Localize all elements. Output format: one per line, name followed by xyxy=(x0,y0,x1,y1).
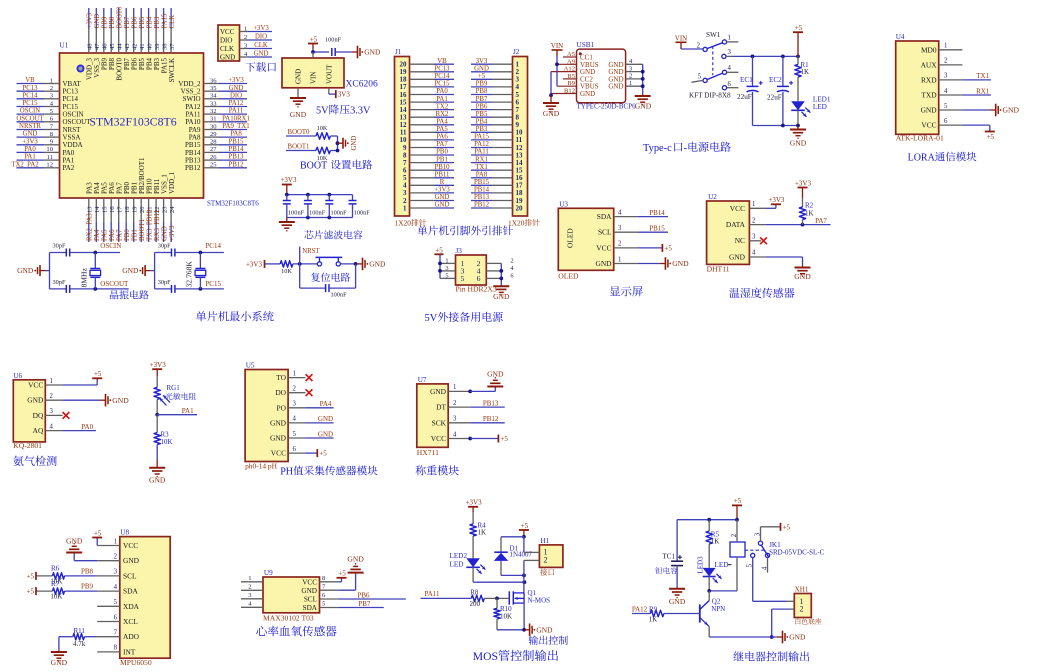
J2 pin 14 wire, net RX1 xyxy=(471,156,523,167)
resistor R7 10K pullup SDA net PB9 xyxy=(27,580,120,601)
regulator U10 XC6206 body xyxy=(282,58,378,90)
capacitor 30pF bottom 2 xyxy=(155,279,201,293)
capacitor TC1 tantalum 钽电容 xyxy=(655,520,683,589)
svg-text:+3V3: +3V3 xyxy=(253,25,269,32)
svg-text:27: 27 xyxy=(210,146,217,153)
U1 pin 11 PA1 wire, net PA1 xyxy=(17,154,75,165)
svg-text:1: 1 xyxy=(752,201,755,208)
svg-text:16: 16 xyxy=(109,206,116,213)
svg-text:2: 2 xyxy=(50,85,53,92)
power +3V3 at U2 VCC xyxy=(749,196,784,208)
svg-text:TC1: TC1 xyxy=(662,553,675,561)
svg-text:48: 48 xyxy=(87,43,94,50)
svg-text:TX1: TX1 xyxy=(976,72,989,80)
svg-text:ph0-14 pH: ph0-14 pH xyxy=(245,461,277,470)
power +3V3 port filter caps xyxy=(280,176,297,195)
U1 pin 32 PA11 wire, net PA11 xyxy=(185,108,247,119)
svg-text:+5: +5 xyxy=(734,497,742,505)
svg-text:PB14: PB14 xyxy=(474,187,490,194)
svg-text:PC14: PC14 xyxy=(22,92,38,99)
net label OSCOUT wire xyxy=(93,280,129,291)
svg-text:3: 3 xyxy=(114,569,118,576)
J1 pin 12 wire, net PA4 xyxy=(400,119,455,130)
svg-text:Pin HDR2X3: Pin HDR2X3 xyxy=(456,285,497,294)
svg-text:100nF: 100nF xyxy=(331,291,348,298)
svg-text:GND: GND xyxy=(149,476,166,485)
J2 pin 7 wire, net PB6 xyxy=(471,103,520,114)
no-connect X at U6 DQ xyxy=(45,412,69,419)
svg-text:MOS: MOS xyxy=(473,650,498,663)
svg-text:6: 6 xyxy=(510,272,513,279)
svg-text:40: 40 xyxy=(147,43,154,50)
svg-text:CLK: CLK xyxy=(254,42,268,49)
no-connect X at U5 TO xyxy=(288,374,312,381)
resistor R2 1K pullup xyxy=(795,179,814,224)
module U8 MPU6050 body xyxy=(114,529,171,667)
svg-text:PA0: PA0 xyxy=(24,146,36,153)
ground at filter caps xyxy=(279,218,295,231)
svg-text:2: 2 xyxy=(510,257,513,264)
ground GND at XC6206 xyxy=(290,88,307,119)
svg-text:PC15: PC15 xyxy=(205,280,221,288)
svg-text:PB6: PB6 xyxy=(476,103,488,110)
svg-text:10: 10 xyxy=(46,146,53,153)
J2 pin 17 wire, net PB15 xyxy=(471,179,523,190)
J1 pin 13 wire, net RX2 xyxy=(400,111,455,122)
svg-text:PB14: PB14 xyxy=(228,146,244,153)
svg-text:PB12: PB12 xyxy=(185,164,201,172)
J2 pin 10 wire, net PB3 xyxy=(471,126,523,137)
U1 pin 47 VSS_3 wire, net GND xyxy=(93,8,101,78)
sensor U6 KQ-2801 body xyxy=(13,372,53,450)
svg-text:26: 26 xyxy=(210,154,217,161)
connector download port 下载口 xyxy=(218,25,272,62)
svg-text:+5: +5 xyxy=(521,522,529,530)
resistor R8 200 gate xyxy=(470,588,510,608)
svg-text:+5: +5 xyxy=(27,588,35,596)
label 1X20排针 under J1 xyxy=(395,219,427,228)
svg-text:+3V3: +3V3 xyxy=(22,138,38,145)
svg-text:GND: GND xyxy=(789,633,806,642)
svg-text:RG1: RG1 xyxy=(167,384,181,392)
U1 pin 17 PA7 wire, net PA7 xyxy=(116,182,124,242)
U1 pin 44 BOOT0 wire, net BOOT0 xyxy=(116,6,124,81)
J1 pin 17 wire, net PC15 xyxy=(400,81,455,92)
svg-text:PB6: PB6 xyxy=(357,591,370,599)
U4 pin1 MD0 stub xyxy=(939,49,963,51)
svg-text:TXD: TXD xyxy=(921,91,937,100)
no-connect X at U2 NC xyxy=(749,237,767,244)
svg-text:DT: DT xyxy=(436,403,446,412)
svg-text:PA7: PA7 xyxy=(436,141,448,148)
svg-text:AQ: AQ xyxy=(33,426,44,435)
svg-text:GND: GND xyxy=(351,136,358,151)
op-amp U1 STM32F103C8T6 MCU body xyxy=(60,42,260,208)
svg-text:100nF: 100nF xyxy=(288,209,305,216)
wire XH1 pin2 to gnd rail xyxy=(770,609,795,639)
net label PC14 wire xyxy=(199,242,224,254)
U1 pin 40 PB4 wire, net PB4 xyxy=(146,8,154,70)
svg-text:DO: DO xyxy=(275,388,286,397)
svg-text:PO: PO xyxy=(277,403,287,412)
svg-text:5: 5 xyxy=(746,563,753,567)
wire J3 left rail junctions xyxy=(438,262,442,273)
svg-text:6: 6 xyxy=(728,81,732,88)
svg-text:SW1: SW1 xyxy=(706,31,721,39)
U1 pin 37 SWCLK wire, net CLK xyxy=(168,8,176,83)
svg-text:OSCOUT: OSCOUT xyxy=(16,115,44,122)
capacitor 30pF top 2 xyxy=(155,242,201,256)
module U4 ATK-LORA-01 body xyxy=(896,33,948,143)
svg-text:PB8: PB8 xyxy=(109,16,116,28)
svg-text:PB15: PB15 xyxy=(228,138,244,145)
capacitor 100nF filter #3 xyxy=(325,195,347,218)
svg-text:22uF: 22uF xyxy=(737,93,752,101)
svg-text:PB12: PB12 xyxy=(483,415,499,423)
J3 pin 2 wire xyxy=(486,257,513,264)
U1 pin 16 PA6 wire, net PA6 xyxy=(108,182,116,242)
svg-text:1K: 1K xyxy=(711,537,720,545)
svg-text:PA1: PA1 xyxy=(24,154,35,161)
switch SW1 KFT DIP-8X8 xyxy=(689,31,738,99)
net label BOOT0 wire xyxy=(286,129,316,136)
svg-text:PB3: PB3 xyxy=(476,126,488,133)
svg-text:19: 19 xyxy=(132,206,139,213)
svg-text:PB0: PB0 xyxy=(124,229,131,241)
svg-text:+3V3: +3V3 xyxy=(280,176,297,184)
wire H1 pin2 to Q1 drain xyxy=(523,560,525,593)
sensor U5 ph0-14 pH body xyxy=(245,362,296,471)
svg-text:TX1: TX1 xyxy=(475,164,487,171)
svg-text:42: 42 xyxy=(132,43,139,50)
svg-text:GND: GND xyxy=(430,387,447,396)
svg-text:PB13: PB13 xyxy=(474,194,490,201)
svg-text:PA10RX1: PA10RX1 xyxy=(222,115,250,122)
svg-text:GND: GND xyxy=(435,194,450,201)
U1 pin 14 PA4 wire, net PA4 xyxy=(93,182,101,242)
J1 pin 16 wire, net PA0 xyxy=(400,88,455,99)
svg-text:VIN: VIN xyxy=(310,72,318,84)
svg-text:2: 2 xyxy=(293,386,297,393)
svg-text:+5: +5 xyxy=(795,24,803,32)
net label NRST wire xyxy=(298,247,321,266)
wire +5 node to H1 pin1 xyxy=(523,537,525,553)
svg-text:2: 2 xyxy=(618,241,622,248)
net label PB15 wire U3 xyxy=(614,225,668,233)
svg-text:1: 1 xyxy=(453,384,456,391)
resistor 10K reset xyxy=(268,261,317,276)
wire BOOT junction xyxy=(336,136,340,152)
svg-text:PA12: PA12 xyxy=(632,606,648,614)
wire crystal vertical rail 1 xyxy=(49,253,51,289)
svg-text:MD0: MD0 xyxy=(921,45,937,54)
svg-text:GND: GND xyxy=(487,369,504,378)
svg-text:4: 4 xyxy=(114,584,118,591)
svg-text:46: 46 xyxy=(102,43,109,50)
J1 pin 19 wire, net PC13 xyxy=(400,66,455,77)
U1 pin 2 PC13 wire, net PC13 xyxy=(17,85,79,96)
wire VIN to VBUS pins xyxy=(555,62,559,86)
svg-text:PB15: PB15 xyxy=(474,179,490,186)
wire SW1 pin3 to +5 rail xyxy=(732,55,800,59)
svg-text:PB5: PB5 xyxy=(476,111,488,118)
wire VOUT to 3V3 xyxy=(329,88,335,94)
power +5 at U8 VCC xyxy=(92,529,120,545)
wire relay pin5 to XH1 pin1 xyxy=(753,600,795,602)
svg-text:+5: +5 xyxy=(94,370,102,378)
wire Q1 source to gnd rail xyxy=(522,603,526,632)
svg-text:2: 2 xyxy=(114,554,118,561)
svg-text:OSCOUT: OSCOUT xyxy=(100,280,129,288)
svg-text:1: 1 xyxy=(248,575,251,582)
U1 pin 25 PB12 wire, net PB12 xyxy=(185,161,247,172)
svg-text:PB9: PB9 xyxy=(476,81,488,88)
svg-text:PA0: PA0 xyxy=(436,88,448,95)
ground at power rail xyxy=(790,126,807,148)
svg-text:2: 2 xyxy=(244,34,247,41)
svg-text:GND: GND xyxy=(318,430,333,438)
svg-text:2: 2 xyxy=(629,73,632,80)
svg-text:32: 32 xyxy=(210,108,217,115)
U1 pin 34 SWIO wire, net DIO xyxy=(183,92,247,103)
svg-text:TX2 PA2: TX2 PA2 xyxy=(11,161,39,168)
svg-text:GND: GND xyxy=(921,106,938,115)
svg-text:EC2: EC2 xyxy=(769,76,782,84)
svg-text:GND: GND xyxy=(254,51,269,58)
wire VIN node xyxy=(311,49,329,58)
power +5 at U3 VCC xyxy=(614,244,673,253)
wire relay top rail xyxy=(677,518,739,522)
J2 pin 1 wire, net 3V3 xyxy=(471,58,520,69)
svg-text:PB13: PB13 xyxy=(228,154,244,161)
svg-text:STM32F103C8T6: STM32F103C8T6 xyxy=(207,200,259,208)
resistor R10 10K gate pulldown xyxy=(494,598,524,629)
svg-text:GND: GND xyxy=(608,83,623,91)
label MOS管控制输出 xyxy=(473,650,558,663)
power +5 port at XC6206 xyxy=(308,35,318,49)
U1 pin 18 PB0 wire, net PB0 xyxy=(123,181,131,242)
J1 pin 5 wire, net PB11 xyxy=(403,171,454,182)
resistor 10K BOOT1 xyxy=(316,147,338,162)
capacitor 100nF reset xyxy=(300,264,356,298)
label 复位电路 xyxy=(311,273,350,282)
svg-text:32.768K: 32.768K xyxy=(184,261,193,288)
label 晶振电路 xyxy=(110,290,149,299)
svg-text:GND: GND xyxy=(17,266,34,275)
svg-text:2: 2 xyxy=(50,393,54,400)
svg-text:PC15: PC15 xyxy=(434,81,450,88)
label 继电器控制输出 xyxy=(733,651,809,661)
net label PA1 wire xyxy=(155,407,197,417)
J2 pin 16 wire, net PA8 xyxy=(471,171,523,182)
svg-text:5V: 5V xyxy=(425,313,438,324)
svg-text:4.7k: 4.7k xyxy=(73,640,86,648)
svg-text:8MHz: 8MHz xyxy=(79,267,88,287)
U8 pin8 INT stub xyxy=(97,651,120,653)
U1 pin 13 PA3 wire, net RX2 PA3 xyxy=(86,182,94,242)
ground bar reset xyxy=(357,258,386,271)
svg-text:NC: NC xyxy=(735,236,745,245)
svg-text:+3V3: +3V3 xyxy=(768,196,785,204)
svg-text:1: 1 xyxy=(114,538,117,545)
svg-text:PB3: PB3 xyxy=(154,16,161,28)
net label PA4 wire U5 PO xyxy=(288,400,334,408)
power +5 at U4 VCC xyxy=(939,125,995,141)
svg-text:+5: +5 xyxy=(310,35,318,43)
label 输出控制 xyxy=(529,636,568,645)
svg-text:GND: GND xyxy=(580,90,595,98)
svg-text:SRD-05VDC-SL-C: SRD-05VDC-SL-C xyxy=(769,548,825,556)
svg-text:DATA: DATA xyxy=(726,220,746,229)
svg-text:1: 1 xyxy=(50,77,53,84)
svg-text:14: 14 xyxy=(94,206,101,213)
svg-text:GND: GND xyxy=(295,69,303,84)
ground bar at U3 xyxy=(614,257,689,270)
capacitor EC1 22uF xyxy=(737,56,763,125)
capacitor 100nF filter #1 xyxy=(283,195,305,218)
power +5 at relay block xyxy=(732,497,742,520)
resistor R6 10K pullup SCL net PB8 xyxy=(27,565,120,586)
J1 pin 4 wire, net R xyxy=(403,179,454,190)
U1 pin 36 VDD_2 wire, net +3V3 xyxy=(178,77,247,88)
U1 pin 27 PB14 wire, net PB14 xyxy=(185,146,247,157)
svg-text:1: 1 xyxy=(244,25,247,32)
svg-text:GND: GND xyxy=(301,587,317,595)
transistor Q2 NPN xyxy=(700,591,725,637)
J2 pin 18 wire, net PB14 xyxy=(471,187,523,198)
svg-text:BOOT0: BOOT0 xyxy=(288,129,311,136)
ground at R3 xyxy=(149,468,166,485)
svg-text:100nF: 100nF xyxy=(331,209,348,216)
svg-text:VCC: VCC xyxy=(596,243,611,252)
svg-text:20: 20 xyxy=(139,206,146,213)
net label PA11 wire xyxy=(421,590,472,599)
J1 pin 3 wire, net +3V3 xyxy=(403,187,454,198)
svg-text:11: 11 xyxy=(47,154,53,161)
svg-text:1: 1 xyxy=(293,370,296,377)
svg-text:NRST: NRST xyxy=(302,248,320,255)
J1 pin 10 wire, net PA6 xyxy=(400,134,455,145)
svg-text:GND: GND xyxy=(318,415,333,423)
svg-text:VCC: VCC xyxy=(123,541,138,550)
svg-text:1K: 1K xyxy=(478,529,487,537)
svg-text:VCC: VCC xyxy=(220,28,235,36)
svg-text:H1: H1 xyxy=(540,537,549,545)
svg-text:MPU6050: MPU6050 xyxy=(120,658,152,667)
svg-text:PA2: PA2 xyxy=(63,164,75,172)
svg-text:TX3 PB10: TX3 PB10 xyxy=(147,209,154,241)
svg-text:36: 36 xyxy=(210,77,217,84)
svg-text:PB1: PB1 xyxy=(132,229,139,241)
push button reset xyxy=(316,257,343,266)
svg-text:N-MOS: N-MOS xyxy=(528,596,551,604)
svg-text:10K: 10K xyxy=(317,125,328,132)
ground bar crystal circuit 1 xyxy=(17,265,49,276)
svg-text:USB1: USB1 xyxy=(577,41,595,49)
svg-text:DIO: DIO xyxy=(220,37,232,45)
svg-text:VCC: VCC xyxy=(921,121,936,130)
power +5 at U5 VCC xyxy=(288,449,327,458)
svg-text:25: 25 xyxy=(210,162,217,169)
connector H1 接口 body xyxy=(539,537,563,576)
svg-text:PC14: PC14 xyxy=(434,73,450,80)
label 芯片滤波电容 xyxy=(304,230,362,239)
capacitor 100nF filter #4 xyxy=(349,195,371,218)
net label PA7 wire U2 DATA xyxy=(749,217,830,227)
J1 pin 1 wire, net GND xyxy=(403,202,454,213)
label 心率血氧传感器 xyxy=(256,626,336,637)
relay JK1 switch SRD-05VDC-SL-C xyxy=(745,523,825,602)
svg-text:3V3: 3V3 xyxy=(338,91,351,99)
svg-text:+5: +5 xyxy=(500,435,508,443)
svg-text:R7: R7 xyxy=(51,580,60,588)
svg-text:+3V3: +3V3 xyxy=(150,361,167,369)
svg-text:3: 3 xyxy=(453,416,457,423)
svg-text:+3V3: +3V3 xyxy=(795,179,812,187)
resistor R1 1K xyxy=(795,56,809,101)
svg-text:PC14: PC14 xyxy=(205,242,221,250)
svg-text:10K: 10K xyxy=(50,593,62,601)
label Type-c口-电源电路 xyxy=(643,142,731,154)
module U7 HX711 body xyxy=(417,376,457,457)
net label PB7 wire U9 SDA xyxy=(320,600,384,608)
J3 pin 1 wire xyxy=(440,257,456,264)
U1 pin 4 PC15 wire, net PC15 xyxy=(17,100,79,111)
svg-text:1: 1 xyxy=(618,256,621,263)
USB1 right pins 4 3 2 1 xyxy=(626,58,643,87)
svg-text:GND: GND xyxy=(672,259,689,268)
diode D1 1N4007 flyback xyxy=(494,537,533,578)
U1 pin 30 PA9 wire, net PA9 TX1 xyxy=(189,123,250,134)
J1 pin 8 wire, net PB0 xyxy=(403,149,454,160)
svg-text:XC6206: XC6206 xyxy=(346,80,378,90)
J2 pin 3 wire, net +5 xyxy=(471,73,520,84)
svg-text:LORA: LORA xyxy=(908,153,936,164)
svg-text:SWCLK: SWCLK xyxy=(168,58,176,83)
ground at J3 xyxy=(493,286,510,301)
svg-text:+3V3: +3V3 xyxy=(87,12,94,28)
svg-text:100nF: 100nF xyxy=(325,37,342,44)
wire filter cap bottom rail xyxy=(287,216,353,220)
diode LED1 xyxy=(791,96,831,126)
svg-text:5: 5 xyxy=(698,74,702,81)
svg-text:TYPEC-250D-BCP6: TYPEC-250D-BCP6 xyxy=(577,102,637,110)
svg-text:LED: LED xyxy=(450,561,464,569)
svg-text:PA9 TX1: PA9 TX1 xyxy=(222,123,249,130)
svg-text:PA0: PA0 xyxy=(81,423,93,431)
ground at U8 GND xyxy=(66,537,120,561)
svg-text:U9: U9 xyxy=(264,569,273,577)
wire USB1 right gnd rail xyxy=(641,64,645,94)
svg-text:LED3: LED3 xyxy=(697,556,705,574)
svg-text:GND: GND xyxy=(536,625,553,634)
svg-text:DHT11: DHT11 xyxy=(707,264,730,273)
capacitor 30pF bottom 1 xyxy=(50,279,96,293)
svg-text:VCC: VCC xyxy=(730,204,745,213)
svg-text:U3: U3 xyxy=(559,200,568,208)
svg-text:17: 17 xyxy=(117,206,124,213)
svg-text:31: 31 xyxy=(210,116,217,123)
wire LED2 to drain node xyxy=(473,567,526,584)
svg-text:DQ: DQ xyxy=(33,411,44,420)
svg-text:VDD_1: VDD_1 xyxy=(168,171,176,194)
net label PB12 wire U7 SCK xyxy=(448,415,505,423)
U8 pin5 XDA stub xyxy=(97,605,120,607)
ground bar at XC6206 input cap xyxy=(352,46,381,59)
U1 pin 7 NRST wire, net NRSTR xyxy=(17,123,82,134)
J2 pin 6 wire, net PB7 xyxy=(471,96,520,107)
svg-text:PB1: PB1 xyxy=(436,156,448,163)
